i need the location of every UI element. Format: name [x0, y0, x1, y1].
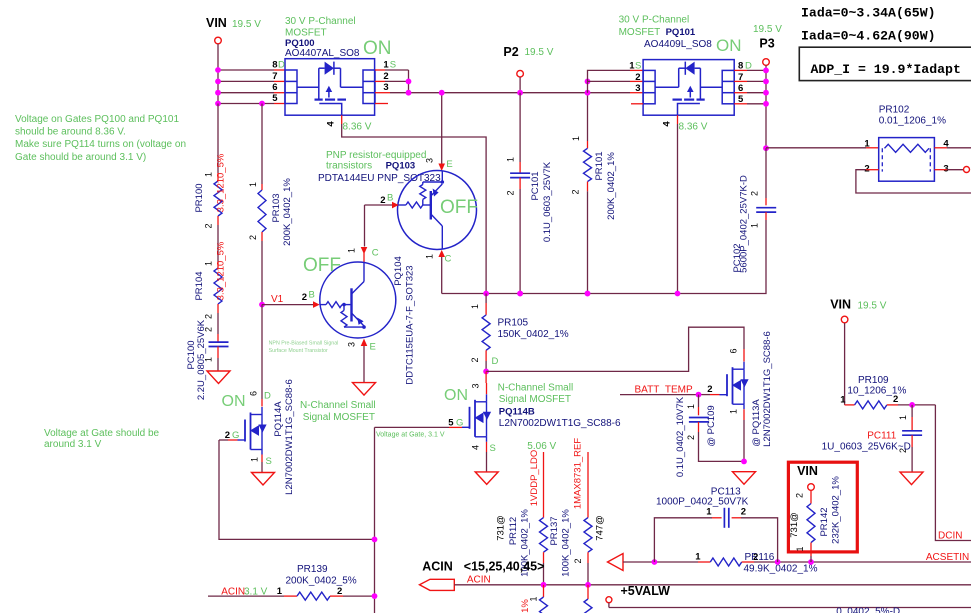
svg-text:D: D — [492, 356, 499, 367]
resistor PR100 — [217, 104, 219, 174]
svg-text:1: 1 — [706, 507, 712, 518]
svg-text:2: 2 — [571, 189, 581, 194]
svg-text:Voltage at Gate, 3.1 V: Voltage at Gate, 3.1 V — [376, 432, 445, 439]
wire PQ114B source to ground — [486, 442, 488, 452]
svg-text:19.5 V: 19.5 V — [753, 24, 782, 35]
svg-text:2: 2 — [248, 235, 258, 240]
svg-text:PR103: PR103 — [271, 193, 282, 222]
svg-text:0.1U_0402_10V7K: 0.1U_0402_10V7K — [675, 396, 686, 477]
svg-text:D: D — [278, 60, 285, 71]
svg-text:1: 1 — [795, 546, 805, 551]
svg-text:19.5 V: 19.5 V — [525, 47, 554, 58]
svg-text:Signal MOSFET: Signal MOSFET — [499, 394, 571, 405]
svg-text:232K_0402_1%: 232K_0402_1% — [831, 476, 842, 544]
svg-text:OFF: OFF — [440, 197, 478, 218]
svg-text:Make sure PQ114 turns on (volt: Make sure PQ114 turns on (voltage on — [15, 139, 186, 150]
wire VIN to PQ100 pin6 — [218, 92, 274, 94]
svg-text:1: 1 — [425, 254, 435, 259]
svg-text:L2N7002DW1T1G_SC88-6: L2N7002DW1T1G_SC88-6 — [499, 418, 621, 429]
ground PC100 — [207, 371, 230, 384]
svg-text:5: 5 — [448, 418, 454, 429]
resistor PR109 — [844, 323, 846, 405]
wire PQ101 right pins to P3 rail — [734, 69, 747, 71]
svg-text:1U_0603_25V6K~D: 1U_0603_25V6K~D — [822, 441, 911, 452]
capacitor PC109 — [698, 395, 700, 407]
svg-text:S: S — [266, 456, 272, 467]
svg-text:AO4409L_SO8: AO4409L_SO8 — [644, 39, 712, 50]
svg-text:D: D — [264, 391, 271, 402]
wire PQ113A source — [743, 409, 745, 420]
pin stub PQ100 unnumbered — [375, 103, 388, 105]
svg-text:PQ114A: PQ114A — [273, 401, 284, 437]
svg-text:N-Channel Small: N-Channel Small — [300, 400, 376, 411]
capacitor PC101 — [519, 93, 521, 162]
svg-text:1: 1 — [506, 157, 516, 162]
svg-text:PR101: PR101 — [594, 151, 605, 180]
svg-text:1: 1 — [729, 409, 739, 414]
svg-text:731@: 731@ — [789, 512, 800, 538]
svg-text:2: 2 — [635, 72, 640, 83]
node PQ100 output junctions — [406, 79, 412, 85]
node PR109-PC111 — [909, 402, 915, 408]
svg-text:1000P_0402_50V7K: 1000P_0402_50V7K — [656, 496, 749, 507]
wire PQ103 emitter from bus — [441, 93, 443, 164]
svg-text:2: 2 — [795, 493, 805, 498]
wire ACIN row — [454, 584, 971, 586]
svg-text:1: 1 — [898, 415, 908, 420]
svg-text:PR112: PR112 — [508, 517, 519, 545]
svg-text:1: 1 — [204, 172, 214, 177]
wire PR104 to PC100 — [217, 313, 219, 334]
resistor PR137 — [584, 518, 592, 553]
svg-text:2: 2 — [470, 357, 480, 362]
svg-text:1: 1 — [470, 304, 480, 309]
svg-text:7: 7 — [272, 71, 277, 82]
svg-text:E: E — [446, 159, 452, 170]
wire PQ114 gate rail — [374, 427, 376, 613]
node ACSETIN junctions — [652, 559, 658, 565]
svg-text:2: 2 — [741, 507, 746, 518]
svg-text:1: 1 — [250, 457, 260, 462]
wire V1 to PQ104 base — [262, 304, 313, 306]
svg-text:PR104: PR104 — [194, 271, 205, 300]
wire PQ100 pin2 — [375, 80, 385, 82]
transistor PQ103 PDTA144EU — [398, 171, 477, 250]
wire VIN rail vertical — [217, 44, 219, 104]
svg-text:MOSFET: MOSFET — [619, 27, 661, 38]
wire PQ114A gate — [219, 440, 375, 539]
wire bus to PQ101 pin1/2 — [588, 70, 631, 92]
svg-text:<15,25,40,45>: <15,25,40,45> — [464, 560, 545, 574]
svg-text:1: 1 — [204, 261, 214, 266]
wire PQ100 pin1 S to bus — [375, 69, 385, 71]
svg-text:+5VALW: +5VALW — [621, 584, 671, 598]
node VIN rail junctions — [215, 67, 221, 73]
transistor PQ103 base wire from PQ104 collector — [365, 204, 393, 206]
svg-text:PQ104: PQ104 — [393, 256, 404, 286]
wire VIN to PQ100 pin7 — [218, 80, 274, 82]
wire P3 rail — [765, 66, 767, 149]
capacitor PC102 — [765, 148, 767, 198]
net ACSETIN connector — [608, 554, 624, 571]
svg-text:2: 2 — [337, 586, 342, 597]
resistor PR116 — [710, 558, 741, 566]
mosfet PQ114B — [485, 371, 487, 383]
resistor PR102 1206 sense — [879, 138, 935, 182]
svg-text:4: 4 — [471, 445, 481, 450]
svg-text:2: 2 — [302, 292, 307, 303]
svg-text:PR137: PR137 — [549, 516, 560, 545]
svg-text:Voltage on Gates PQ100 and PQ1: Voltage on Gates PQ100 and PQ101 — [15, 114, 179, 125]
svg-text:B: B — [309, 290, 315, 301]
net 1MAX8731_REF stub — [587, 452, 589, 518]
resistor PR103 — [261, 104, 263, 185]
node PR105 bottom — [483, 369, 489, 375]
svg-text:200K_0402_5%: 200K_0402_5% — [286, 576, 357, 587]
svg-text:6: 6 — [729, 348, 739, 353]
svg-text:19.5 V: 19.5 V — [232, 19, 261, 30]
svg-text:1: 1 — [695, 552, 701, 563]
svg-text:150K_0402_1%: 150K_0402_1% — [498, 329, 569, 340]
node BATT_TEMP junction — [696, 392, 702, 398]
svg-text:49.9K_0402_1%: 49.9K_0402_1% — [744, 563, 818, 574]
svg-text:6: 6 — [272, 82, 277, 93]
svg-text:1: 1 — [864, 139, 870, 150]
svg-text:2: 2 — [204, 314, 214, 319]
ground PQ114B — [475, 472, 498, 485]
svg-text:1MAX8731_REF: 1MAX8731_REF — [573, 438, 584, 509]
svg-text:S: S — [490, 443, 496, 454]
node gate rail junctions — [372, 537, 378, 543]
svg-text:6: 6 — [249, 391, 259, 396]
svg-text:PQ103: PQ103 — [386, 161, 416, 172]
svg-text:2: 2 — [707, 384, 712, 395]
transistor PQ104 DDTC115EUA — [320, 262, 396, 338]
svg-text:0.1U_0603_25V7K: 0.1U_0603_25V7K — [542, 161, 553, 242]
svg-text:PR116: PR116 — [745, 552, 775, 563]
svg-text:C: C — [372, 248, 379, 259]
svg-text:PC101: PC101 — [530, 171, 541, 200]
svg-text:1: 1 — [347, 248, 357, 253]
svg-text:8.36 V: 8.36 V — [343, 122, 372, 133]
svg-text:PR105: PR105 — [498, 318, 529, 329]
svg-text:5600P_0402_25V7K-D: 5600P_0402_25V7K-D — [739, 175, 750, 273]
svg-text:N-Channel Small: N-Channel Small — [498, 383, 574, 394]
svg-text:ACIN: ACIN — [467, 574, 491, 585]
wire PQ100 pin3 long bus to PQ101 — [375, 92, 390, 94]
resistor PR142 — [810, 491, 812, 504]
ground PC111 — [900, 472, 923, 485]
svg-text:Gate should be around 3.1 V): Gate should be around 3.1 V) — [15, 152, 146, 163]
svg-text:L2N7002DW1T1G_SC88-6: L2N7002DW1T1G_SC88-6 — [284, 379, 295, 495]
svg-text:PNP resistor-equipped: PNP resistor-equipped — [326, 150, 426, 161]
resistor PR1xx below ACIN row left — [543, 585, 545, 597]
svg-text:2: 2 — [204, 223, 214, 228]
svg-text:PR102: PR102 — [879, 105, 910, 116]
wire ACSETIN row — [623, 561, 698, 563]
mosfet PQ114A — [261, 399, 263, 407]
svg-text:200K_0402_1%: 200K_0402_1% — [606, 152, 617, 220]
svg-text:1: 1 — [686, 404, 696, 409]
wire PQ114B gate — [375, 426, 450, 428]
svg-text:2: 2 — [204, 327, 214, 332]
mosfet PQ100 body AO4407AL_SO8 — [285, 59, 375, 115]
resistor PR112 — [540, 518, 548, 553]
svg-text:Surface Mount Transistor: Surface Mount Transistor — [269, 348, 328, 354]
node PR101 bottom — [585, 291, 591, 297]
svg-text:VIN: VIN — [797, 464, 818, 478]
svg-text:3: 3 — [635, 83, 640, 94]
svg-text:1: 1 — [750, 223, 760, 228]
svg-text:1: 1 — [840, 395, 846, 406]
svg-text:B: B — [387, 193, 393, 204]
node V1 — [259, 302, 265, 308]
resistor PR101 — [587, 93, 589, 141]
svg-text:4: 4 — [326, 121, 337, 127]
svg-text:2: 2 — [753, 552, 758, 563]
wire P2 to bus — [519, 77, 521, 93]
wire P3 to PR102 — [766, 147, 866, 149]
svg-text:P2: P2 — [503, 45, 518, 59]
svg-text:3: 3 — [471, 383, 481, 388]
svg-text:PR100: PR100 — [194, 183, 205, 212]
svg-text:DCIN: DCIN — [938, 531, 962, 542]
svg-text:2: 2 — [225, 430, 230, 441]
svg-text:5: 5 — [272, 93, 278, 104]
svg-text:VIN: VIN — [830, 298, 851, 312]
wire PQ101 pin4 down — [677, 115, 679, 124]
svg-text:2: 2 — [383, 71, 388, 82]
svg-text:3: 3 — [943, 163, 948, 174]
svg-text:Signal MOSFET: Signal MOSFET — [303, 412, 375, 423]
svg-text:731@: 731@ — [496, 515, 507, 541]
svg-text:ADP_I = 19.9*Iadapt: ADP_I = 19.9*Iadapt — [811, 62, 961, 77]
svg-text:ON: ON — [444, 387, 468, 404]
node mid-rail junctions — [483, 291, 489, 297]
svg-text:Voltage at Gate should be: Voltage at Gate should be — [44, 428, 160, 439]
svg-text:NPN Pre-Biased Small Signal: NPN Pre-Biased Small Signal — [269, 341, 339, 347]
mosfet PQ113A — [720, 394, 728, 396]
wire PQ114A source to ground — [261, 455, 263, 463]
capacitor PC100 — [217, 334, 219, 342]
capacitor PC111 — [911, 405, 913, 417]
svg-text:2: 2 — [893, 394, 898, 405]
wire VIN to PQ100 pin8 — [218, 69, 274, 71]
svg-text:100K_0402_1%: 100K_0402_1% — [561, 509, 572, 577]
capacitor PC113 — [654, 518, 712, 562]
svg-text:0_0402_5%-D: 0_0402_5%-D — [836, 607, 900, 613]
svg-text:8.36 V: 8.36 V — [679, 122, 708, 133]
svg-text:30 V P-Channel: 30 V P-Channel — [285, 16, 356, 27]
svg-text:PQ114B: PQ114B — [499, 407, 535, 418]
transistor PQ104 emitter pin and ground — [361, 339, 368, 346]
svg-text:S: S — [635, 61, 641, 72]
svg-text:PR109: PR109 — [858, 375, 889, 386]
wire PR102 pin3 — [934, 169, 947, 171]
svg-text:0.01_1206_1%: 0.01_1206_1% — [879, 116, 946, 127]
svg-text:Iada=0~3.34A(65W): Iada=0~3.34A(65W) — [801, 6, 936, 21]
wire PQ100 pin4 to net — [341, 115, 343, 124]
svg-text:L2N7002DW1T1G_SC88-6: L2N7002DW1T1G_SC88-6 — [762, 331, 773, 447]
resistor PR104 — [217, 262, 219, 268]
svg-text:Iada=0~4.62A(90W): Iada=0~4.62A(90W) — [801, 29, 936, 44]
power port P3 — [763, 59, 770, 66]
node bus-PQ103 — [439, 90, 445, 96]
resistor PR105 — [485, 294, 487, 304]
svg-text:747@: 747@ — [595, 515, 606, 541]
mosfet PQ101 body AO4409L_SO8 — [643, 60, 734, 116]
wire +5VALW row — [609, 607, 971, 609]
wire VIN to PQ100 pin5 — [218, 103, 274, 105]
svg-text:PR139: PR139 — [297, 564, 328, 575]
svg-text:ACSETIN: ACSETIN — [926, 552, 969, 563]
svg-text:3: 3 — [347, 342, 357, 347]
svg-text:200K_0402_1%: 200K_0402_1% — [282, 178, 293, 246]
svg-text:transistors: transistors — [326, 161, 372, 172]
wire V1 down to PQ114A drain — [261, 305, 263, 399]
svg-text:2: 2 — [573, 558, 583, 563]
node PR101 top junctions — [585, 79, 591, 85]
svg-text:1%: 1% — [520, 599, 531, 613]
svg-text:DDTC115EUA-7-F_SOT323: DDTC115EUA-7-F_SOT323 — [405, 265, 416, 384]
svg-text:G: G — [456, 418, 463, 429]
svg-text:ON: ON — [363, 38, 392, 59]
svg-text:1: 1 — [204, 357, 214, 362]
svg-text:3.3_1210_5%: 3.3_1210_5% — [216, 153, 227, 212]
highlight box PR142 — [788, 462, 857, 552]
svg-text:PR142: PR142 — [819, 507, 830, 536]
svg-text:MOSFET: MOSFET — [285, 28, 327, 39]
wire PR109 to DCIN — [898, 404, 935, 406]
svg-text:1: 1 — [571, 136, 581, 141]
svg-text:S: S — [390, 60, 396, 71]
svg-text:C: C — [445, 254, 452, 265]
svg-text:1: 1 — [277, 586, 283, 597]
wire PR100 to PR104 — [217, 225, 219, 262]
svg-text:2: 2 — [864, 163, 869, 174]
svg-text:1VDDP_LDO: 1VDDP_LDO — [529, 450, 540, 507]
annotation ADP_I formula box — [799, 47, 971, 80]
wire PR105 node to PQ113A drain — [486, 327, 744, 371]
svg-text:E: E — [370, 342, 376, 353]
svg-text:VIN: VIN — [206, 16, 227, 30]
svg-text:@ PC109: @ PC109 — [706, 405, 717, 446]
ground PQ113A — [733, 472, 756, 485]
transistor PQ104 collector pin — [361, 247, 368, 254]
svg-text:3: 3 — [425, 158, 435, 163]
wire PR102 pin2 return — [866, 169, 879, 171]
svg-text:19.5 V: 19.5 V — [858, 301, 887, 312]
pin stub PQ101 unnumbered — [631, 103, 643, 105]
svg-text:G: G — [232, 430, 239, 441]
svg-text:ACIN: ACIN — [422, 560, 453, 574]
svg-text:2: 2 — [506, 190, 516, 195]
svg-text:PC111: PC111 — [867, 431, 897, 442]
node P2 bottom — [517, 291, 523, 297]
svg-text:30 V P-Channel: 30 V P-Channel — [619, 15, 690, 26]
svg-text:4: 4 — [662, 121, 673, 127]
svg-text:BATT_TEMP: BATT_TEMP — [635, 384, 693, 395]
svg-text:2: 2 — [750, 191, 760, 196]
svg-text:3.3_1210_5%: 3.3_1210_5% — [216, 241, 227, 300]
svg-text:should be around 8.36 V.: should be around 8.36 V. — [15, 127, 126, 138]
wire PR102 pin4 out — [934, 147, 947, 149]
svg-text:PQ101: PQ101 — [666, 27, 696, 38]
svg-text:P3: P3 — [759, 37, 774, 51]
svg-text:1: 1 — [383, 60, 389, 71]
svg-text:ON: ON — [222, 393, 246, 410]
node PQ113A source junction — [741, 459, 747, 465]
svg-text:AO4407AL_SO8: AO4407AL_SO8 — [285, 48, 360, 59]
svg-text:3: 3 — [383, 82, 388, 93]
svg-text:1: 1 — [248, 182, 258, 187]
svg-text:ON: ON — [716, 36, 742, 55]
svg-text:2: 2 — [686, 435, 696, 440]
svg-text:around 3.1 V: around 3.1 V — [44, 439, 102, 450]
resistor PR1xx below ACIN row right — [587, 585, 589, 599]
svg-text:8: 8 — [272, 60, 277, 71]
svg-text:2: 2 — [380, 195, 385, 206]
svg-text:V1: V1 — [271, 294, 284, 305]
ground PQ114A — [252, 473, 275, 486]
svg-text:OFF: OFF — [303, 255, 341, 276]
svg-text:@ PQ113A: @ PQ113A — [751, 399, 762, 447]
transistor PQ103 collector wire — [438, 250, 445, 257]
